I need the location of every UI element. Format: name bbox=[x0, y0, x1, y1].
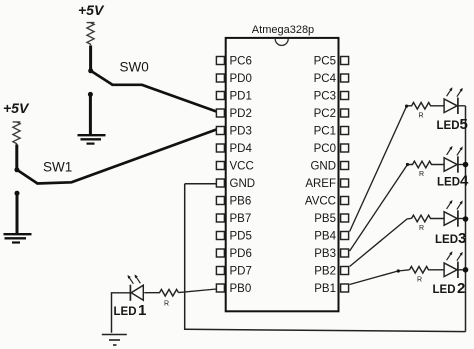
wire: LED3 cathode to right rail bbox=[458, 218, 466, 220]
wire: GND pin to ground net (left segment) bbox=[185, 183, 217, 185]
resistor R (LED2) bbox=[410, 267, 445, 274]
svg-text:PD0: PD0 bbox=[230, 73, 252, 85]
wire: resistor to SW1 upper terminal bbox=[15, 145, 18, 170]
svg-text:PC0: PC0 bbox=[314, 143, 336, 155]
IC U1 orientation notch bbox=[275, 39, 288, 46]
resistor R (LED4) bbox=[408, 161, 444, 168]
pin PB0 bbox=[216, 283, 251, 295]
node: SW1 upper terminal bbox=[14, 167, 19, 172]
wire: LED2 cathode to right rail bbox=[458, 269, 466, 271]
switch SW0 blade bbox=[91, 71, 113, 85]
node: right rail junction at LED2 bbox=[463, 267, 469, 273]
ground (LED1) bbox=[102, 335, 127, 346]
pin PD5 bbox=[216, 231, 251, 243]
pin PD0 bbox=[216, 73, 251, 85]
LED D1 bbox=[128, 274, 144, 300]
svg-text:PB1: PB1 bbox=[314, 283, 336, 295]
svg-text:PD1: PD1 bbox=[230, 91, 252, 103]
svg-text:PC4: PC4 bbox=[314, 73, 337, 85]
pin PC4 bbox=[314, 73, 349, 85]
pin AVCC bbox=[305, 196, 349, 208]
svg-text:PD5: PD5 bbox=[230, 231, 252, 243]
wire: LED1 cathode to ground bbox=[112, 293, 131, 333]
LED D5 bbox=[444, 87, 463, 114]
ground (SW1) bbox=[4, 234, 32, 242]
node: LED4 resistor junction bbox=[406, 163, 409, 166]
svg-text:SW0: SW0 bbox=[120, 60, 149, 75]
pin PD2 bbox=[216, 108, 251, 120]
svg-text:PB2: PB2 bbox=[314, 266, 336, 278]
pin PB5 bbox=[314, 213, 348, 225]
wire: LED5 cathode to right rail bbox=[458, 105, 466, 107]
wire: pin PB0 to LED1 resistor bbox=[179, 289, 217, 293]
pin VCC bbox=[216, 161, 253, 173]
pin PB2 bbox=[314, 266, 348, 278]
pin PD6 bbox=[216, 248, 251, 260]
node: right rail junction at LED3 bbox=[463, 216, 469, 222]
pin PD3 bbox=[216, 126, 251, 138]
pin PC5 bbox=[314, 56, 349, 68]
pin AREF bbox=[305, 178, 348, 190]
wire: SW1 lower terminal to ground bbox=[16, 193, 19, 233]
svg-text:PB4: PB4 bbox=[314, 231, 336, 243]
svg-text:PC1: PC1 bbox=[314, 126, 336, 138]
pin PC2 bbox=[314, 108, 349, 120]
wire: ground net bottom rail bbox=[185, 329, 466, 331]
svg-text:R: R bbox=[417, 277, 422, 284]
svg-text:PB5: PB5 bbox=[314, 213, 336, 225]
svg-text:GND: GND bbox=[230, 178, 256, 190]
switch SW1 blade bbox=[17, 170, 38, 184]
wire: pin PB2 to LED3 resistor bbox=[350, 218, 412, 266]
node: SW1 lower terminal bbox=[15, 191, 20, 196]
svg-text:+5V: +5V bbox=[3, 100, 30, 116]
pin PB1 bbox=[314, 283, 348, 295]
svg-text:GND: GND bbox=[310, 161, 336, 173]
resistor R (SW1 pull-up) bbox=[13, 122, 21, 145]
pin PB4 bbox=[314, 231, 348, 243]
wire: resistor to SW0 upper terminal bbox=[89, 46, 92, 71]
ground (SW0) bbox=[78, 135, 106, 143]
svg-text:PD3: PD3 bbox=[230, 126, 252, 138]
pin PD7 bbox=[216, 266, 251, 278]
resistor R (LED1) bbox=[144, 289, 178, 296]
svg-text:SW1: SW1 bbox=[43, 160, 72, 175]
svg-text:PB7: PB7 bbox=[230, 213, 252, 225]
pin GND (right) bbox=[310, 161, 348, 173]
svg-text:R: R bbox=[419, 171, 424, 178]
svg-text:PC2: PC2 bbox=[314, 108, 336, 120]
node: SW0 upper terminal bbox=[88, 68, 93, 73]
svg-text:PD4: PD4 bbox=[230, 143, 253, 155]
wire: pin PB3 to LED4 resistor bbox=[350, 165, 408, 252]
wire: SW1 to pin PD3 bbox=[37, 130, 217, 184]
pin PC0 bbox=[314, 143, 349, 155]
resistor R (SW0 pull-up) bbox=[87, 23, 95, 46]
pin PB6 bbox=[216, 196, 251, 208]
LED D3 bbox=[444, 200, 463, 227]
wire: pin PB4 to LED5 resistor bbox=[350, 106, 407, 231]
node: LED5 resistor junction bbox=[405, 105, 408, 108]
node: LED2 wire bend bbox=[397, 269, 400, 272]
svg-text:PC6: PC6 bbox=[230, 56, 252, 68]
svg-text:VCC: VCC bbox=[230, 161, 254, 173]
wire: ground net left vertical bbox=[184, 184, 186, 330]
svg-text:PB3: PB3 bbox=[314, 248, 336, 260]
svg-text:R: R bbox=[419, 225, 424, 232]
pin PD1 bbox=[216, 91, 251, 103]
wire: SW0 to pin PD2 bbox=[112, 85, 217, 112]
pin PB3 bbox=[314, 248, 348, 260]
svg-text:AVCC: AVCC bbox=[305, 196, 336, 208]
pin PC1 bbox=[314, 126, 349, 138]
pin PC6 bbox=[216, 56, 251, 68]
IC U1 body (Atmega328p) bbox=[226, 38, 339, 311]
svg-text:PB0: PB0 bbox=[230, 283, 252, 295]
svg-text:PD7: PD7 bbox=[230, 266, 252, 278]
pin PB7 bbox=[216, 213, 251, 225]
node: right rail junction at LED4 bbox=[463, 162, 469, 168]
LED D4 bbox=[444, 146, 463, 173]
svg-text:R: R bbox=[164, 301, 169, 308]
wire: pin PB1 to LED2 resistor bbox=[350, 270, 410, 285]
svg-text:R: R bbox=[419, 113, 424, 120]
svg-text:PC3: PC3 bbox=[314, 91, 336, 103]
svg-text:Atmega328p: Atmega328p bbox=[252, 24, 314, 36]
LED D2 bbox=[444, 251, 463, 278]
node: SW0 lower terminal bbox=[88, 92, 93, 97]
wire: LED4 cathode to right rail bbox=[458, 164, 466, 166]
svg-text:PC5: PC5 bbox=[314, 56, 336, 68]
svg-text:PB6: PB6 bbox=[230, 196, 252, 208]
pin PD4 bbox=[216, 143, 252, 155]
resistor R (LED5) bbox=[407, 103, 444, 110]
wire: SW0 lower terminal to ground bbox=[89, 94, 92, 134]
resistor R (LED3) bbox=[412, 215, 445, 222]
pin PC3 bbox=[314, 91, 349, 103]
svg-text:AREF: AREF bbox=[305, 178, 336, 190]
wire: ground net right rail bbox=[465, 106, 467, 332]
svg-text:PD6: PD6 bbox=[230, 248, 252, 260]
svg-text:PD2: PD2 bbox=[230, 108, 252, 120]
pin GND (left) bbox=[216, 178, 255, 190]
svg-text:+5V: +5V bbox=[78, 2, 105, 18]
